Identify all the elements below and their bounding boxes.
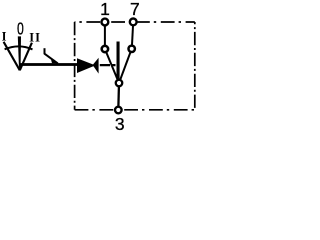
fixed contact (from terminal 7) (129, 46, 135, 52)
terminal 1 (102, 19, 109, 26)
lever (toggle handle, position 0) (18, 36, 21, 70)
svg-text:7: 7 (130, 0, 140, 19)
wire pivot to terminal 3 (117, 83, 120, 110)
terminal 7 (130, 19, 137, 26)
svg-text:1: 1 (100, 0, 110, 19)
actuator push bar (117, 42, 120, 79)
fixed contact (from terminal 1) (102, 46, 108, 52)
wire terminal 7 to fixed contact (132, 22, 133, 49)
fan right stroke (position II travel) (20, 43, 32, 71)
wire terminal 1 to fixed contact (104, 22, 106, 49)
linkage arrow (bow-tie coupling) right half (93, 58, 99, 74)
svg-text:I: I (2, 29, 7, 43)
dashed coupling link to contact bar (100, 64, 116, 66)
detent (latching) symbol (44, 48, 46, 54)
enclosure (dash-dot boundary) (75, 22, 195, 110)
svg-text:3: 3 (115, 114, 125, 133)
terminal 3 (115, 107, 122, 114)
svg-text:0: 0 (17, 19, 24, 39)
moving contact arm to contact 1 (105, 49, 119, 83)
fan left stroke (position I travel) (4, 42, 20, 71)
linkage arrow (bow-tie coupling) left half (77, 58, 95, 73)
fan arc (5, 46, 33, 49)
contact arm pivot (116, 80, 123, 87)
moving contact arm to contact 7 (119, 49, 132, 83)
svg-text:II: II (29, 30, 41, 44)
actuating shaft (lever to switch) (20, 63, 78, 66)
